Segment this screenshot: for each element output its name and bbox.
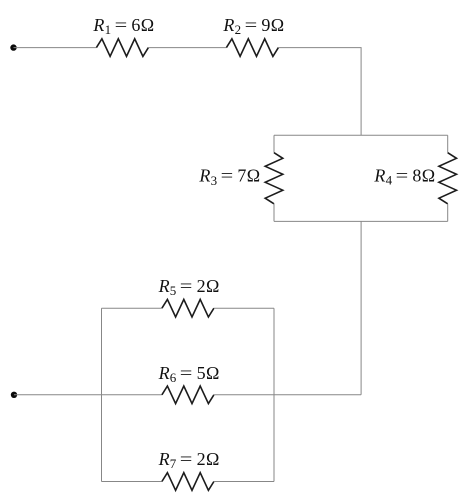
- wire (top terminal to R1): [14, 47, 97, 49]
- resistor R2: [226, 39, 278, 57]
- resistor R1: [96, 39, 148, 57]
- wire (box left edge upper lead): [273, 135, 275, 152]
- svg-text:R3=7Ω: R3=7Ω: [198, 166, 260, 188]
- wire (middle branch left lead): [102, 394, 162, 396]
- node A (top-left terminal dot): [10, 44, 16, 50]
- wire (top branch left lead): [102, 307, 162, 309]
- resistor R6: [162, 386, 214, 404]
- resistor R4: [439, 153, 457, 204]
- svg-text:R7=2Ω: R7=2Ω: [158, 449, 220, 471]
- wire (middle branch right lead): [214, 394, 274, 396]
- svg-text:R4=8Ω: R4=8Ω: [373, 165, 435, 187]
- wire (box right edge upper lead): [447, 135, 449, 152]
- resistor R5: [162, 299, 214, 317]
- resistor R3: [265, 153, 283, 204]
- node B (bottom-left terminal dot): [11, 392, 17, 398]
- wire (block right edge vertical): [273, 308, 275, 481]
- svg-text:R2=9Ω: R2=9Ω: [222, 15, 284, 37]
- wire (top branch right lead): [214, 307, 274, 309]
- wire (bottom branch right lead): [214, 481, 274, 483]
- wire (box left edge lower lead): [273, 204, 275, 222]
- svg-text:R1=6Ω: R1=6Ω: [92, 15, 154, 37]
- wire (block left edge vertical): [101, 308, 103, 481]
- svg-text:R6=5Ω: R6=5Ω: [158, 363, 220, 385]
- wire (box right edge lower lead): [447, 204, 449, 222]
- resistor R7: [162, 473, 214, 491]
- wire (box bottom junction down to middle branch level): [360, 221, 362, 394]
- wire (bottom branch left lead): [102, 481, 162, 483]
- wire (parallel box bottom edge): [274, 220, 448, 222]
- wire (bottom terminal to block left edge): [14, 394, 102, 396]
- wire (parallel box top edge): [274, 134, 448, 136]
- wire (R2 to top-right corner, down to parallel box): [278, 48, 361, 136]
- wire (middle branch level leftwards to bottom parallel block): [274, 394, 361, 396]
- svg-text:R5=2Ω: R5=2Ω: [158, 276, 220, 298]
- wire (R1 to R2): [148, 47, 226, 49]
